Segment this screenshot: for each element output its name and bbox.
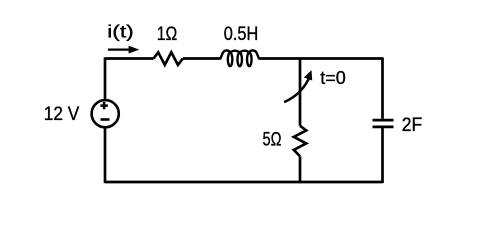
switch SW arc bbox=[285, 70, 312, 102]
resistor 5ohm zigzag bbox=[294, 126, 306, 157]
svg-text:1Ω: 1Ω bbox=[157, 23, 178, 45]
label 1ohm bbox=[157, 23, 178, 45]
wire between resistor and inductor bbox=[183, 57, 221, 60]
label 5ohm bbox=[263, 129, 282, 151]
wire right branch lower bbox=[381, 127, 384, 183]
label 0.5H bbox=[224, 23, 259, 45]
svg-text:0.5H: 0.5H bbox=[224, 23, 259, 45]
wire middle branch upper (switch wire) bbox=[299, 59, 302, 126]
inductor L 0.5H loops bbox=[221, 50, 259, 66]
svg-text:12 V: 12 V bbox=[44, 104, 80, 125]
current arrow bbox=[108, 46, 139, 54]
wire right branch upper bbox=[381, 57, 384, 118]
svg-text:2F: 2F bbox=[402, 114, 423, 136]
capacitor C 2F plates bbox=[373, 120, 394, 127]
wire left branch above source bbox=[104, 57, 107, 101]
wire bottom rail bbox=[105, 181, 383, 184]
resistor 1ohm zigzag bbox=[154, 52, 183, 65]
wire top-left segment bbox=[105, 57, 154, 60]
wire middle branch lower bbox=[299, 156, 302, 183]
current label i(t) bbox=[107, 22, 134, 42]
svg-text:i(t): i(t) bbox=[107, 22, 134, 42]
source plus sign bbox=[100, 102, 108, 109]
label 2F bbox=[402, 114, 423, 136]
wire left branch below source bbox=[104, 127, 107, 183]
source V1 12V circle bbox=[92, 100, 119, 127]
svg-text:5Ω: 5Ω bbox=[263, 129, 282, 151]
wire inductor to top-right corner bbox=[259, 57, 382, 60]
source minus sign bbox=[101, 118, 110, 121]
svg-text:t=0: t=0 bbox=[320, 68, 346, 88]
label t=0 bbox=[320, 68, 346, 88]
label 12 V bbox=[44, 104, 80, 125]
